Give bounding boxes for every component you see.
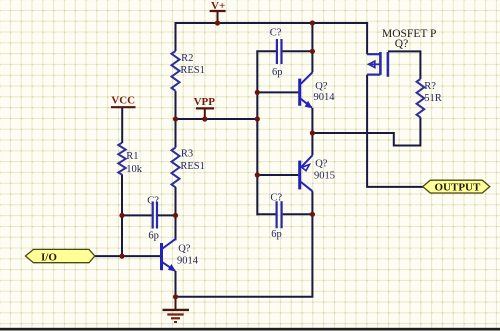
port I/O: [25, 249, 94, 263]
svg-text:RES1: RES1: [180, 161, 205, 172]
resistor R1: [118, 143, 142, 175]
wire C2 left lead: [122, 214, 152, 216]
capacitor C2 6p left: [147, 196, 159, 242]
wire V+ top rail: [175, 22, 369, 24]
resistor R2: [172, 51, 205, 91]
node C2 right junction: [173, 213, 178, 218]
svg-text:R3: R3: [181, 149, 193, 160]
wire C1 right lead: [282, 50, 312, 52]
wire R2 bottom to R3 top: [175, 91, 177, 148]
svg-text:6p: 6p: [272, 67, 283, 78]
wire bottom rail: [175, 214, 313, 297]
node junction dots: [119, 20, 315, 299]
wire C3 right lead: [283, 213, 313, 215]
wire C1 left lead: [256, 50, 276, 52]
svg-text:C?: C?: [147, 196, 159, 207]
wire MOSFET drain to OUTPUT: [367, 75, 423, 187]
power VCC: [111, 95, 136, 108]
wire Q1 emitter to Q2 emitter: [311, 108, 313, 155]
port OUTPUT: [423, 180, 490, 193]
svg-text:MOSFET P: MOSFET P: [382, 28, 436, 40]
node C2 left junction: [119, 213, 124, 218]
node C1 right junction: [310, 49, 315, 54]
MOSFET U1 P-channel: [367, 28, 436, 77]
wire gate drive: [312, 133, 420, 146]
power V+: [210, 0, 226, 23]
wire R2 top lead: [175, 22, 177, 51]
node top rail right junction: [310, 20, 315, 25]
capacitor C3 6p middle bottom: [270, 192, 282, 239]
node V+ junction: [215, 20, 220, 25]
svg-text:I/O: I/O: [41, 251, 57, 263]
wire Q2 collector down: [311, 191, 313, 215]
wire middle rail: [256, 51, 258, 215]
svg-text:6p: 6p: [148, 231, 159, 242]
resistor R3: [172, 148, 205, 188]
svg-text:6p: 6p: [271, 229, 282, 240]
svg-text:Q?: Q?: [315, 81, 328, 92]
transistor Q2 9015 PNP: [298, 155, 335, 191]
svg-text:Q?: Q?: [315, 159, 328, 170]
wire V+ to MOSFET source: [366, 22, 368, 54]
wire R3 bottom to Q3 collector: [175, 187, 177, 240]
ground: [163, 297, 190, 322]
wire C2 right lead: [158, 214, 176, 216]
resistor R4 51R: [417, 79, 442, 117]
svg-text:R?: R?: [424, 81, 436, 92]
node C3 right junction: [310, 212, 315, 217]
svg-text:Q?: Q?: [395, 38, 408, 50]
node Q1 base junction: [255, 90, 260, 95]
node VPP right junction: [255, 116, 260, 121]
power VPP: [194, 96, 216, 119]
svg-text:C?: C?: [270, 192, 282, 203]
transistor Q1 9014 NPN top: [298, 72, 335, 108]
capacitor C1 6p top: [270, 28, 283, 78]
svg-text:VPP: VPP: [194, 96, 216, 108]
node emitters junction: [310, 130, 315, 135]
svg-text:10k: 10k: [126, 164, 143, 175]
wire Q2 base: [257, 174, 298, 176]
wire Q1 base: [257, 91, 298, 93]
svg-text:C?: C?: [270, 28, 282, 39]
bottom window border: [0, 328, 500, 330]
svg-text:RES1: RES1: [180, 65, 205, 76]
wire C3 left lead: [257, 213, 275, 215]
node VPP left junction: [173, 116, 178, 121]
svg-text:R2: R2: [181, 53, 193, 64]
node ground junction: [173, 294, 178, 299]
node VPP stem junction: [202, 116, 207, 121]
node I/O junction: [119, 254, 124, 259]
svg-text:9014: 9014: [177, 256, 199, 267]
wire I/O to Q3 base: [95, 255, 160, 257]
transistor Q3 9014 NPN bottom: [160, 239, 199, 272]
wire Q3 emitter to ground node: [175, 271, 177, 298]
svg-text:VCC: VCC: [111, 95, 135, 107]
wire gate to R4 top: [388, 51, 421, 79]
wire top rail to Q1 collector: [311, 22, 313, 72]
wire VCC to R1 top: [121, 107, 123, 143]
wire VPP horizontal: [176, 118, 258, 120]
svg-text:R1: R1: [126, 151, 138, 162]
svg-text:V+: V+: [211, 0, 225, 12]
wire R1 bottom lead: [121, 174, 123, 256]
svg-text:51R: 51R: [424, 93, 442, 104]
node Q2 base junction: [255, 172, 260, 177]
svg-text:9015: 9015: [314, 171, 335, 182]
svg-text:Q?: Q?: [178, 244, 191, 255]
svg-text:9014: 9014: [314, 92, 336, 103]
svg-text:OUTPUT: OUTPUT: [435, 182, 482, 194]
wire R4 bottom lead: [419, 117, 421, 146]
